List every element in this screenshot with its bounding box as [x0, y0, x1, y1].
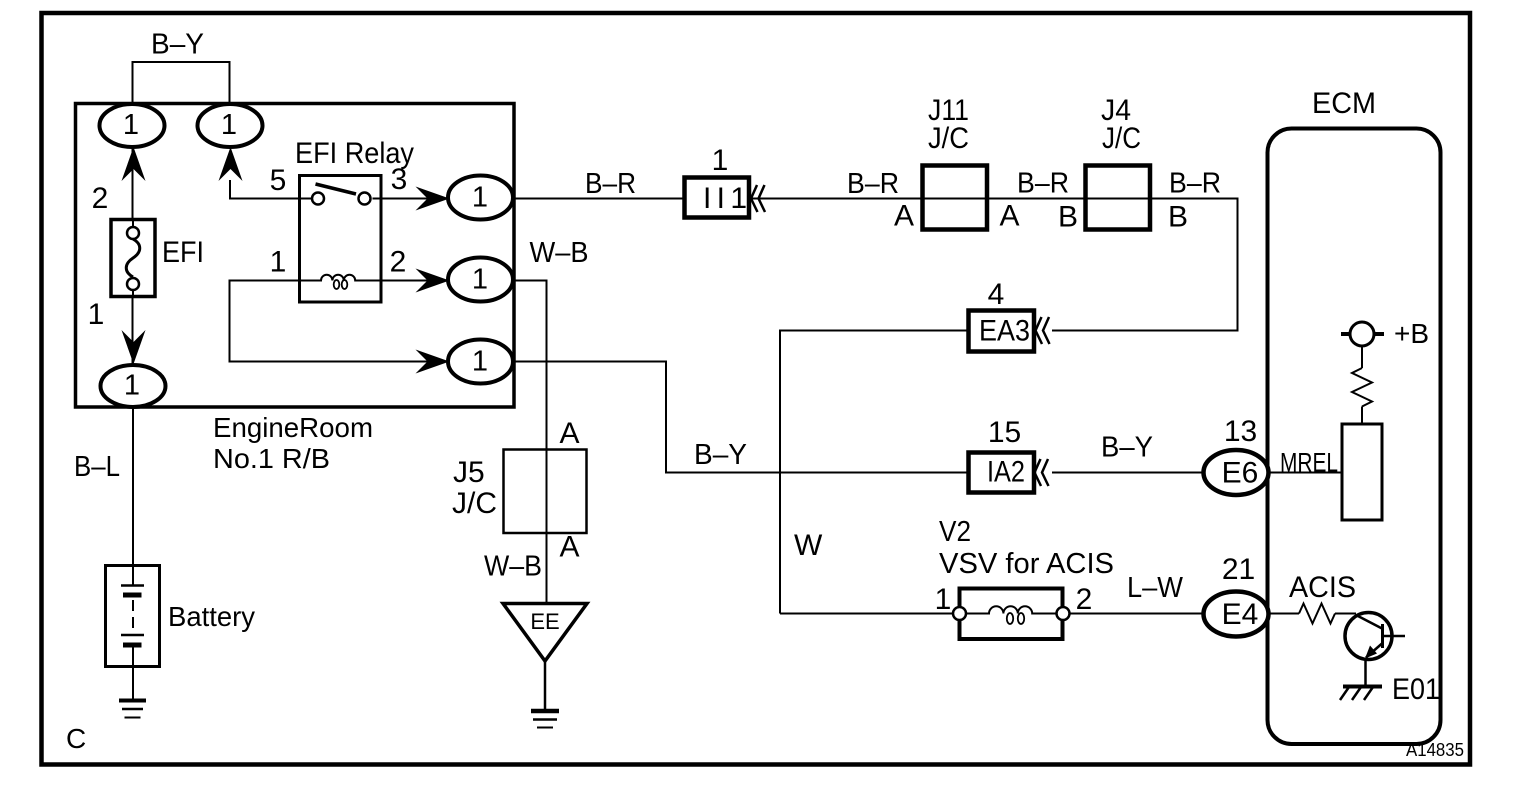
svg-text:1: 1: [472, 346, 488, 378]
svg-text:A14835: A14835: [1406, 740, 1464, 760]
wire EE to ground: [544, 661, 547, 710]
svg-text:B–Y: B–Y: [1101, 432, 1153, 464]
wire oval B to relay pin 5: [230, 180, 312, 199]
svg-text:4: 4: [988, 278, 1005, 311]
svg-text:EA3: EA3: [979, 315, 1030, 348]
wire battery B-L: [132, 407, 134, 566]
chevron II1: [751, 185, 765, 212]
connector IA2: [969, 453, 1035, 493]
svg-text:J/C: J/C: [928, 122, 969, 155]
connector arrow right row2: [416, 269, 450, 293]
svg-text:B–L: B–L: [74, 451, 120, 483]
chevron EA3: [1036, 317, 1050, 344]
svg-text:2: 2: [92, 182, 109, 215]
svg-text:2: 2: [1076, 583, 1093, 616]
wire E4 to resistor ACIS: [1270, 613, 1299, 615]
svg-text:E6: E6: [1222, 457, 1259, 490]
connector E6: [1204, 450, 1269, 495]
svg-text:B: B: [1168, 201, 1188, 234]
wire W to VSV pin 1: [780, 613, 955, 615]
svg-text:1: 1: [712, 144, 729, 177]
ground battery: [119, 699, 146, 703]
svg-text:J5: J5: [453, 456, 485, 489]
svg-text:W–B: W–B: [530, 237, 589, 269]
fuse EFI: [111, 220, 155, 297]
connector arrow right row1: [416, 187, 450, 211]
connector E4: [1204, 592, 1269, 637]
svg-text:IA2: IA2: [987, 456, 1025, 489]
junction J5 J/C: [504, 450, 587, 534]
svg-text:EE: EE: [530, 609, 559, 634]
wire resistor to MREL block: [1361, 407, 1363, 425]
resistor vertical: [1352, 368, 1372, 407]
MREL relay block: [1342, 424, 1382, 520]
svg-text:EngineRoom: EngineRoom: [213, 412, 373, 443]
wire VSV pin 2 to E4: [1068, 613, 1204, 615]
svg-text:21: 21: [1222, 553, 1255, 586]
svg-text:1: 1: [472, 182, 488, 214]
svg-text:ACIS: ACIS: [1289, 571, 1356, 604]
svg-text:J/C: J/C: [452, 487, 497, 520]
svg-text:J/C: J/C: [1102, 122, 1141, 155]
wire EFI fuse vertical: [132, 146, 134, 368]
svg-text:A: A: [999, 200, 1019, 233]
svg-text:ECM: ECM: [1312, 87, 1376, 120]
connector arrow right row3: [416, 350, 450, 374]
wire R1 to II1 to J11 to J4 to corner to EA3: [513, 199, 1238, 331]
svg-text:L–W: L–W: [1127, 572, 1184, 604]
wire resistor to transistor: [1335, 613, 1356, 615]
svg-text:3: 3: [391, 163, 408, 196]
connector arrow up A: [122, 147, 146, 181]
connector oval R2: [448, 258, 513, 302]
svg-text:A: A: [559, 417, 579, 450]
ground EE: [531, 709, 559, 714]
wire relay pin 3 to connector: [373, 198, 451, 200]
svg-text:Battery: Battery: [168, 601, 255, 632]
connector EA3: [969, 311, 1035, 352]
junction J4 J/C: [1086, 166, 1151, 230]
relay coil: [299, 275, 381, 281]
wire E6 to MREL block: [1268, 472, 1342, 474]
transistor Q1: [1345, 613, 1392, 660]
VSV coil: [966, 606, 1057, 613]
svg-text:C: C: [66, 723, 86, 754]
svg-text:1: 1: [270, 246, 287, 279]
wire R2 W-B down to EE: [513, 281, 547, 604]
wire relay pin 2 to second connector: [381, 280, 450, 282]
svg-text:B–Y: B–Y: [151, 29, 204, 61]
connector oval R3: [448, 340, 513, 384]
svg-text:A: A: [559, 531, 579, 564]
svg-text:1: 1: [88, 298, 105, 331]
relay switch contact circle left: [312, 193, 324, 205]
ground EE triangle: [503, 604, 587, 662]
svg-text:13: 13: [1224, 415, 1257, 448]
svg-text:EFI: EFI: [162, 236, 204, 269]
svg-text:2: 2: [390, 246, 407, 279]
connector arrow up B: [219, 147, 243, 181]
EFI relay U1 box: [300, 176, 382, 303]
svg-text:1: 1: [124, 370, 140, 402]
svg-text:V2: V2: [939, 516, 971, 548]
svg-text:1: 1: [221, 109, 237, 141]
VSV V2 box: [960, 589, 1063, 640]
battery: [106, 566, 160, 667]
junction J11 J/C: [923, 166, 988, 230]
ECM box: [1268, 129, 1441, 745]
wire transistor emitter to ground: [1364, 660, 1367, 687]
svg-text:5: 5: [270, 164, 287, 197]
svg-text:B–R: B–R: [585, 168, 636, 200]
svg-text:15: 15: [988, 416, 1021, 449]
svg-text:VSV for ACIS: VSV for ACIS: [939, 548, 1114, 580]
wire IA2 to E6: [1052, 472, 1204, 474]
connector oval F: [101, 365, 166, 407]
svg-text:1: 1: [472, 264, 488, 296]
+B terminal: [1341, 332, 1384, 336]
svg-text:B–R: B–R: [1169, 168, 1221, 200]
relay switch contact circle right: [359, 193, 371, 205]
svg-text:B–Y: B–Y: [694, 439, 747, 471]
connector oval A: [100, 104, 165, 147]
svg-text:1: 1: [123, 109, 139, 141]
svg-text:B: B: [1058, 201, 1078, 234]
svg-text:1: 1: [935, 583, 952, 616]
svg-text:B–R: B–R: [1017, 168, 1069, 200]
chevron IA2: [1035, 459, 1049, 486]
svg-text:A: A: [894, 200, 914, 233]
connector II1: [685, 178, 750, 218]
VSV pin 2 circle: [1057, 607, 1070, 620]
svg-text:+B: +B: [1394, 318, 1429, 349]
svg-text:W–B: W–B: [484, 551, 542, 583]
wire EA3 to W junction: [780, 331, 968, 614]
svg-text:E01: E01: [1392, 673, 1440, 706]
svg-text:E4: E4: [1222, 598, 1259, 631]
wire relay pin 1 loop to third connector: [230, 281, 451, 362]
VSV pin 1 circle: [953, 607, 966, 620]
svg-text:B–R: B–R: [847, 168, 899, 200]
svg-text:W: W: [794, 529, 823, 562]
wire +B to resistor: [1361, 346, 1363, 368]
connector oval B: [198, 104, 263, 147]
wire R3 B-Y to IA2: [513, 362, 968, 473]
ground E01: [1343, 685, 1382, 689]
svg-text:No.1 R/B: No.1 R/B: [213, 443, 330, 474]
resistor ACIS: [1299, 604, 1335, 624]
relay switch blade: [316, 184, 357, 194]
EngineRoom No.1 R/B box: [76, 104, 515, 408]
wire battery to ground: [132, 666, 134, 699]
wire B-Y loop top-left: [133, 62, 230, 106]
svg-text:MREL: MREL: [1280, 448, 1338, 478]
connector oval R1: [448, 176, 513, 220]
connector arrow down to oval F: [122, 330, 146, 364]
